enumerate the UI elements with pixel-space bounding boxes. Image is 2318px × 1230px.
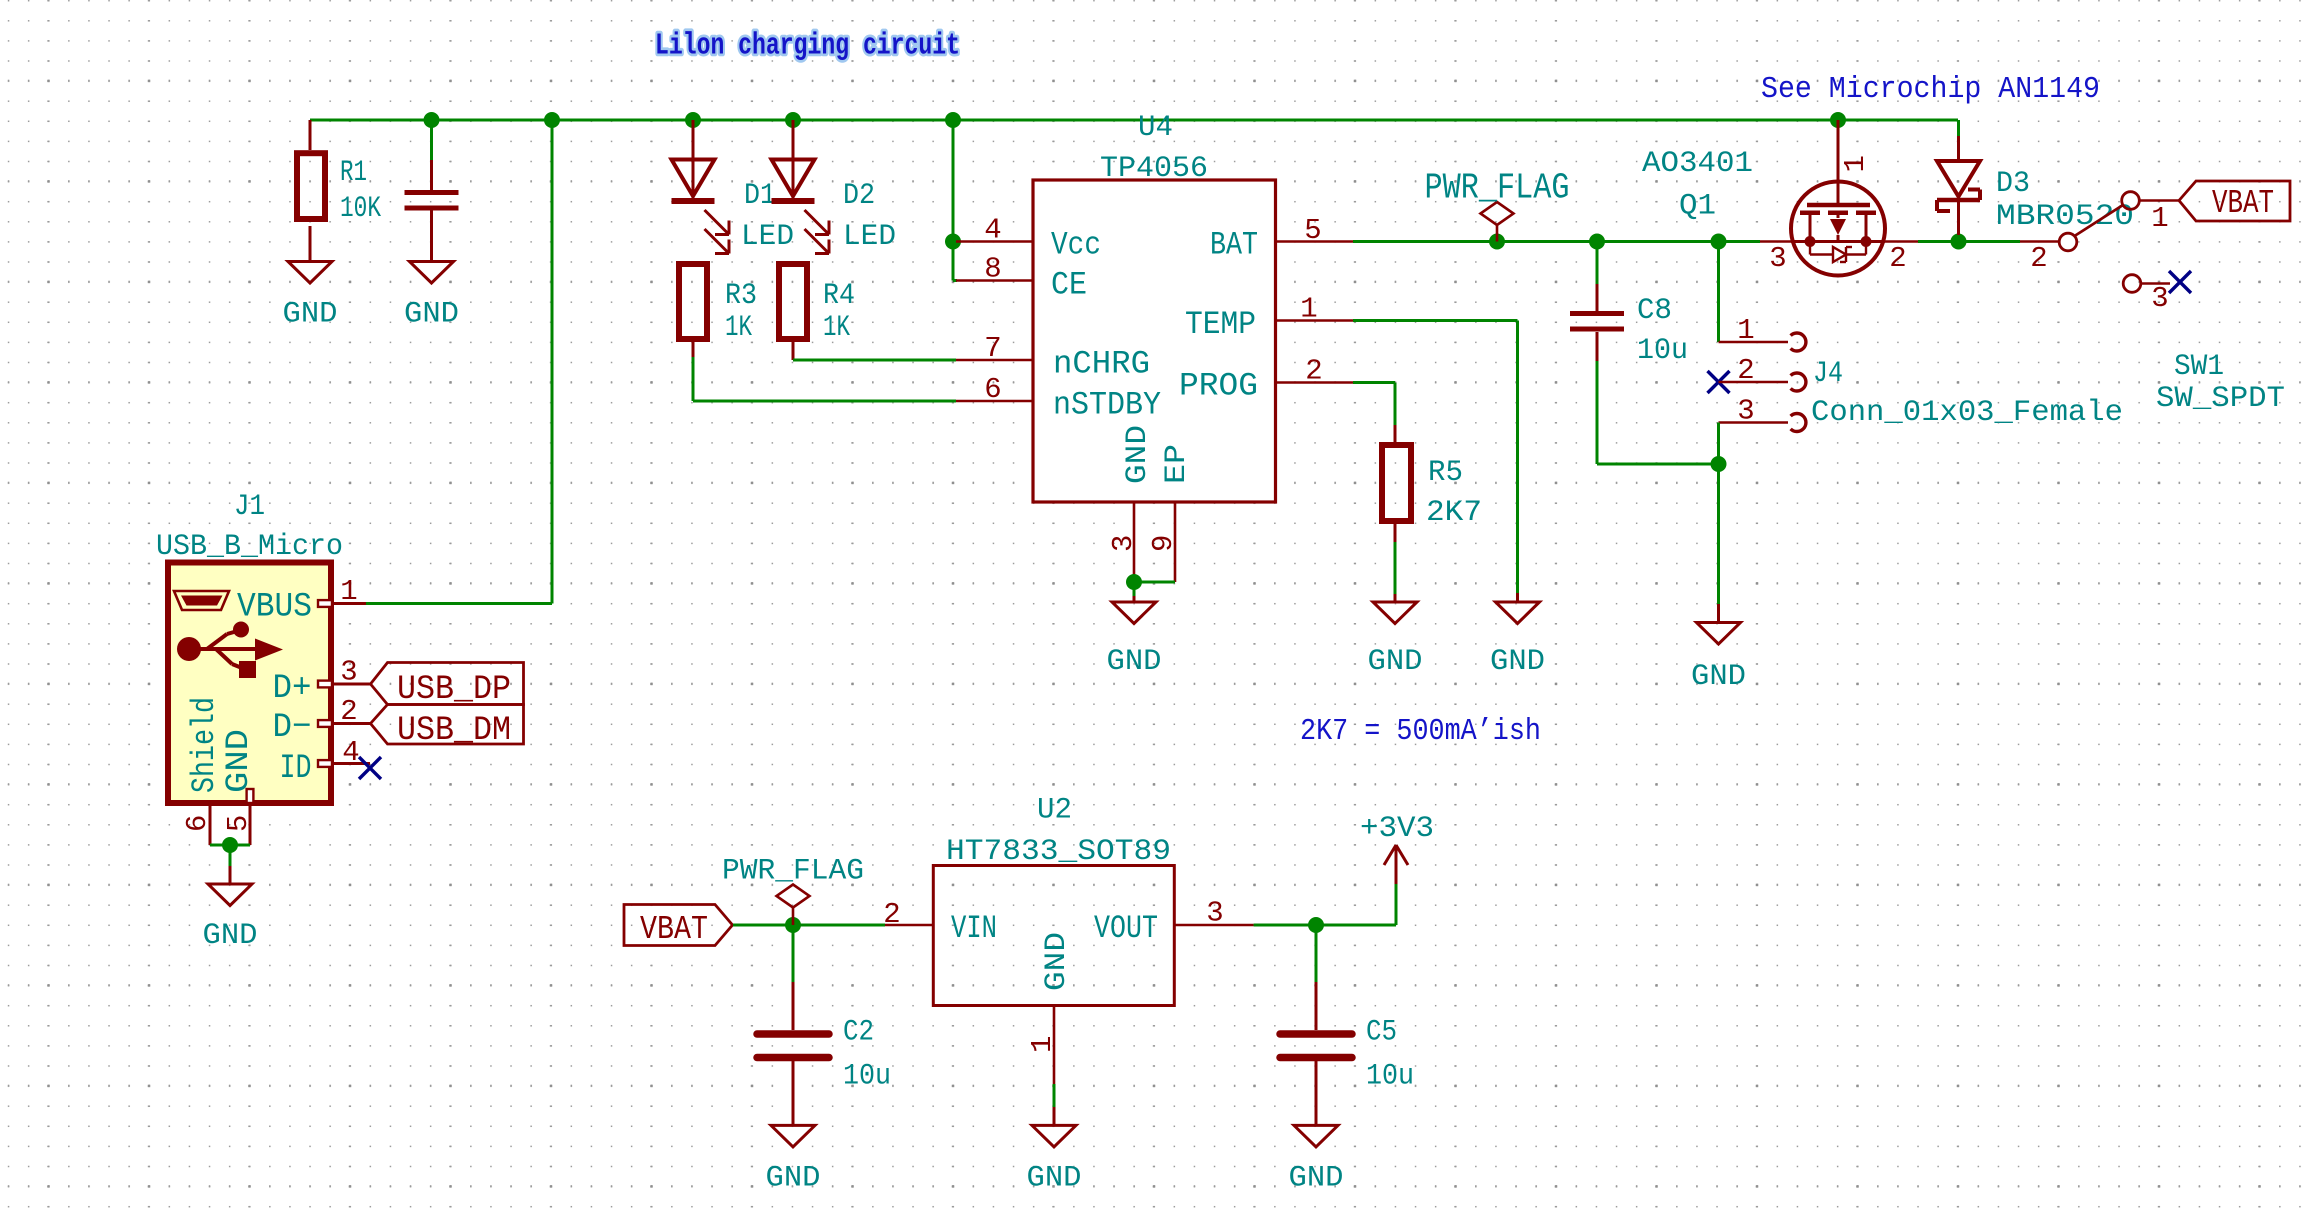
svg-text:HT7833_SOT89: HT7833_SOT89 bbox=[946, 835, 1171, 869]
svg-text:2K7: 2K7 bbox=[1426, 496, 1482, 530]
svg-text:GND: GND bbox=[1490, 645, 1545, 679]
svg-text:Conn_01x03_Female: Conn_01x03_Female bbox=[1811, 396, 2123, 430]
svg-text:10K: 10K bbox=[340, 192, 381, 226]
svg-text:7: 7 bbox=[984, 332, 1001, 365]
svg-text:LED: LED bbox=[843, 220, 896, 254]
svg-text:1: 1 bbox=[1026, 1036, 1059, 1053]
svg-text:PWR_FLAG: PWR_FLAG bbox=[1425, 168, 1570, 209]
svg-text:TP4056: TP4056 bbox=[1100, 152, 1208, 186]
svg-text:EP: EP bbox=[1160, 444, 1194, 484]
svg-text:2: 2 bbox=[1737, 354, 1754, 387]
svg-text:R4: R4 bbox=[823, 279, 855, 313]
svg-text:Vcc: Vcc bbox=[1051, 227, 1101, 264]
svg-text:3: 3 bbox=[1737, 395, 1754, 428]
svg-text:GND: GND bbox=[1107, 645, 1162, 679]
svg-text:PWR_FLAG: PWR_FLAG bbox=[722, 855, 864, 889]
svg-text:VIN: VIN bbox=[951, 910, 997, 947]
svg-text:3: 3 bbox=[2151, 282, 2168, 315]
svg-text:5: 5 bbox=[1304, 214, 1321, 247]
svg-text:3: 3 bbox=[1769, 242, 1786, 275]
svg-text:PROG: PROG bbox=[1179, 368, 1258, 405]
svg-text:D1: D1 bbox=[744, 179, 776, 213]
svg-text:GND: GND bbox=[1289, 1161, 1344, 1195]
svg-text:D2: D2 bbox=[843, 179, 875, 213]
svg-text:Lilon charging circuit: Lilon charging circuit bbox=[655, 29, 960, 64]
svg-text:GND: GND bbox=[1040, 932, 1074, 991]
svg-text:TEMP: TEMP bbox=[1185, 306, 1256, 343]
svg-text:1: 1 bbox=[2151, 202, 2168, 235]
svg-text:4: 4 bbox=[984, 214, 1001, 247]
svg-text:nSTDBY: nSTDBY bbox=[1053, 387, 1161, 424]
svg-text:C5: C5 bbox=[1366, 1016, 1397, 1050]
svg-text:1: 1 bbox=[1300, 293, 1317, 326]
svg-text:8: 8 bbox=[984, 253, 1001, 286]
svg-text:10u: 10u bbox=[843, 1060, 891, 1094]
svg-text:2: 2 bbox=[2030, 242, 2047, 275]
svg-text:3: 3 bbox=[340, 656, 357, 689]
svg-text:USB_DM: USB_DM bbox=[397, 712, 511, 750]
svg-text:U2: U2 bbox=[1037, 794, 1072, 828]
svg-text:2: 2 bbox=[1305, 355, 1322, 388]
svg-text:GND: GND bbox=[1691, 660, 1746, 694]
svg-text:R5: R5 bbox=[1428, 456, 1463, 490]
svg-text:GND: GND bbox=[1027, 1161, 1082, 1195]
svg-text:J4: J4 bbox=[1813, 357, 1843, 391]
svg-text:1K: 1K bbox=[725, 311, 752, 345]
svg-text:D3: D3 bbox=[1996, 167, 2030, 201]
svg-text:MBR0520: MBR0520 bbox=[1996, 200, 2134, 234]
svg-text:10u: 10u bbox=[1366, 1060, 1414, 1094]
svg-text:LED: LED bbox=[741, 220, 794, 254]
svg-text:GND: GND bbox=[766, 1161, 821, 1195]
svg-text:1: 1 bbox=[340, 575, 357, 608]
svg-text:R1: R1 bbox=[340, 156, 367, 190]
svg-text:SW_SPDT: SW_SPDT bbox=[2156, 382, 2285, 416]
svg-text:GND: GND bbox=[404, 298, 459, 332]
svg-text:Q1: Q1 bbox=[1679, 190, 1716, 224]
svg-text:AO3401: AO3401 bbox=[1642, 147, 1753, 181]
svg-text:4: 4 bbox=[342, 736, 359, 769]
svg-text:CE: CE bbox=[1051, 266, 1087, 303]
svg-text:SW1: SW1 bbox=[2174, 350, 2224, 384]
svg-text:9: 9 bbox=[1147, 535, 1180, 552]
svg-text:J1: J1 bbox=[234, 490, 265, 524]
svg-text:USB_B_Micro: USB_B_Micro bbox=[156, 530, 343, 564]
svg-text:C2: C2 bbox=[843, 1016, 874, 1050]
svg-text:+3V3: +3V3 bbox=[1360, 812, 1434, 846]
svg-text:3: 3 bbox=[1206, 897, 1223, 930]
svg-text:2: 2 bbox=[1889, 242, 1906, 275]
svg-text:U4: U4 bbox=[1138, 111, 1173, 145]
svg-text:R3: R3 bbox=[725, 279, 757, 313]
svg-text:GND: GND bbox=[203, 919, 258, 953]
svg-text:3: 3 bbox=[1107, 535, 1140, 552]
svg-text:ID: ID bbox=[280, 750, 312, 788]
svg-text:2: 2 bbox=[340, 695, 357, 728]
svg-text:D−: D− bbox=[273, 709, 312, 747]
svg-text:2: 2 bbox=[883, 898, 900, 931]
svg-text:1: 1 bbox=[1839, 155, 1872, 172]
svg-text:10u: 10u bbox=[1637, 334, 1688, 368]
svg-text:VBAT: VBAT bbox=[640, 911, 708, 948]
svg-text:BAT: BAT bbox=[1210, 227, 1258, 264]
svg-text:2K7 = 500mA’ish: 2K7 = 500mA’ish bbox=[1300, 714, 1541, 749]
svg-text:nCHRG: nCHRG bbox=[1053, 346, 1150, 383]
svg-text:1: 1 bbox=[1737, 314, 1754, 347]
svg-text:Shield: Shield bbox=[186, 697, 223, 793]
svg-text:VBUS: VBUS bbox=[237, 589, 312, 627]
svg-text:5: 5 bbox=[222, 815, 255, 832]
svg-text:6: 6 bbox=[984, 373, 1001, 406]
svg-text:VOUT: VOUT bbox=[1094, 910, 1158, 947]
svg-text:GND: GND bbox=[283, 298, 338, 332]
svg-text:GND: GND bbox=[1368, 645, 1423, 679]
svg-text:See Microchip AN1149: See Microchip AN1149 bbox=[1761, 72, 2100, 107]
svg-text:D+: D+ bbox=[273, 670, 312, 708]
svg-text:1K: 1K bbox=[823, 311, 850, 345]
svg-text:GND: GND bbox=[220, 729, 257, 793]
svg-text:6: 6 bbox=[181, 815, 214, 832]
svg-text:GND: GND bbox=[1121, 425, 1155, 484]
svg-text:C8: C8 bbox=[1637, 294, 1672, 328]
svg-text:VBAT: VBAT bbox=[2212, 185, 2274, 222]
